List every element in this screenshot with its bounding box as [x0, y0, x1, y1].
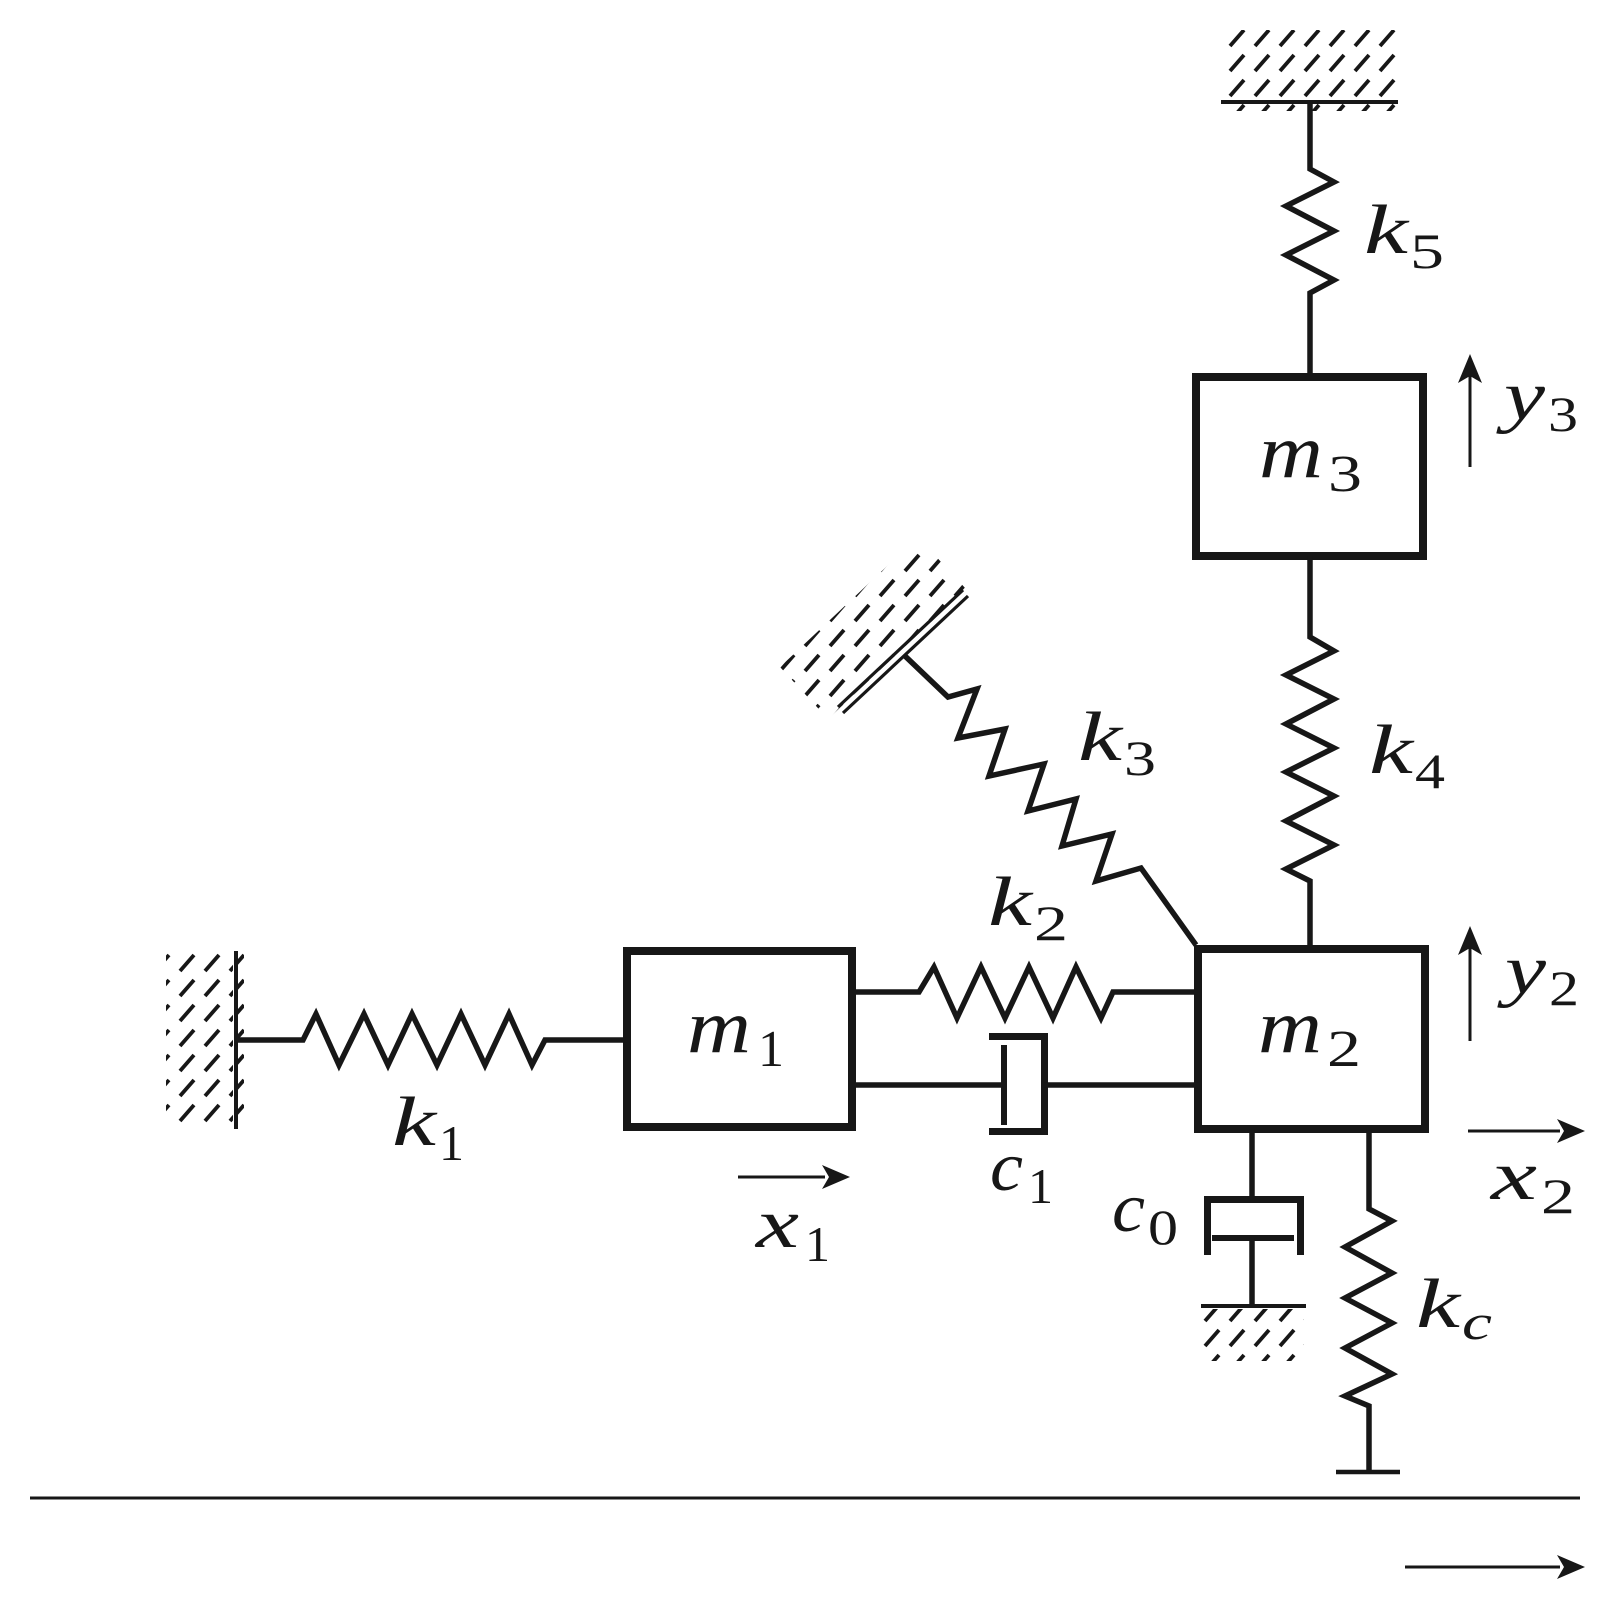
- arrow x2: [1468, 1119, 1585, 1143]
- spring k3: [905, 656, 1196, 945]
- spring k1: [238, 1014, 627, 1065]
- spring k2: [851, 967, 1198, 1018]
- spring k5: [1286, 102, 1334, 377]
- ground under damper c0: [1201, 1306, 1306, 1361]
- damper c1: [851, 1037, 1198, 1132]
- arrow y2: [1458, 926, 1482, 1041]
- mass m3: [1196, 377, 1423, 556]
- mass m2: [1198, 949, 1425, 1129]
- arrow x1: [738, 1165, 850, 1189]
- left wall (fixed support for spring k1): [166, 951, 244, 1129]
- top wall (fixed support for spring k5): [1221, 30, 1398, 111]
- arrow y3: [1458, 354, 1482, 467]
- bottom arrow (ground motion): [1405, 1555, 1585, 1579]
- mass m1: [627, 951, 852, 1127]
- spring k4: [1286, 556, 1334, 949]
- spring kc: [1345, 1129, 1392, 1472]
- ground line: [30, 1497, 1580, 1500]
- damper c0: [1208, 1129, 1301, 1308]
- kc bottom anchor bar: [1336, 1470, 1400, 1475]
- tilted wall (fixed support for spring k3): [780, 537, 968, 719]
